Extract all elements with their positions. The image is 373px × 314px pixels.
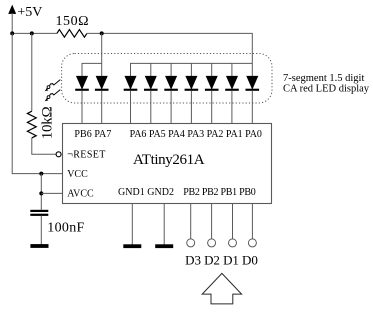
node D0 terminal <box>248 239 256 247</box>
LED1 <box>75 63 89 124</box>
wire: GND1 pin <box>131 204 133 245</box>
LED2 <box>95 63 109 124</box>
svg-text:PA6 PA5 PA4 PA3 PA2 PA1 PA0: PA6 PA5 PA4 PA3 PA2 PA1 PA0 <box>130 129 262 140</box>
svg-text:CA red LED display: CA red LED display <box>283 83 370 94</box>
light emission arrow 1 <box>45 80 61 92</box>
svg-text:PB2 PB2 PB1 PB0: PB2 PB2 PB1 PB0 <box>183 187 256 198</box>
svg-text:PB6 PA7: PB6 PA7 <box>74 129 111 140</box>
wire: feed to group-1 anode bus <box>101 33 103 63</box>
svg-text:100nF: 100nF <box>47 221 84 236</box>
LED display dashed box <box>62 54 272 104</box>
wire: rail from R1 to display feed corner <box>87 33 252 63</box>
LED6 <box>185 63 199 124</box>
junction dot at group-1 feed <box>100 31 104 35</box>
wire: PB0 pin to D0 <box>251 204 253 239</box>
+5V power symbol <box>9 5 16 33</box>
junction dot at +5V stem <box>10 31 14 35</box>
anode bus group 2 <box>131 62 253 64</box>
svg-text:GND1 GND2: GND1 GND2 <box>118 187 174 198</box>
LED7 <box>205 63 219 124</box>
junction dot at 10k branch <box>30 31 34 35</box>
svg-text:VCC: VCC <box>67 169 88 180</box>
node D1 terminal <box>229 239 237 247</box>
wire: capacitor to ground <box>40 216 42 245</box>
capacitor C1 100nF <box>30 210 48 216</box>
LED8 <box>225 63 239 123</box>
junction dot VCC branch <box>39 172 43 176</box>
nRESET inversion circle <box>56 152 61 157</box>
LED5 <box>164 63 178 124</box>
wire: AVCC pin <box>41 192 62 194</box>
wire: GND2 pin <box>163 204 165 245</box>
svg-text:+5V: +5V <box>17 5 42 20</box>
IC U1 ATtiny261A body <box>63 124 272 204</box>
LED9 <box>246 63 260 124</box>
LED3 <box>124 63 138 124</box>
resistor R1 150 ohm <box>57 30 87 38</box>
svg-text:ATtiny261A: ATtiny261A <box>133 152 205 168</box>
wire: PB2 pin to D3 <box>190 204 192 239</box>
svg-text:150Ω: 150Ω <box>56 14 89 29</box>
wire: +5V rail left segment <box>12 32 57 34</box>
LED4 <box>144 63 158 124</box>
ground under GND2 <box>155 244 173 248</box>
wire: PB2 pin to D2 <box>211 204 213 239</box>
wire: 10k to nRESET <box>32 138 56 154</box>
resistor R2 10k ohm <box>27 111 36 138</box>
light emission arrow 2 <box>45 90 61 102</box>
svg-text:¬RESET: ¬RESET <box>67 150 105 161</box>
wire: VCC to AVCC vertical <box>40 174 42 210</box>
wire: PB1 pin to D1 <box>232 204 234 239</box>
wire: left +5V drop to VCC <box>12 33 62 173</box>
anode bus group 1 <box>82 62 102 64</box>
svg-text:AVCC: AVCC <box>67 188 94 199</box>
ground under capacitor <box>30 244 48 248</box>
ground under GND1 <box>123 244 141 248</box>
node D2 terminal <box>208 239 216 247</box>
node D3 terminal <box>187 239 195 247</box>
data direction arrow <box>202 273 241 304</box>
junction dot AVCC branch <box>39 191 43 195</box>
wire: 10k branch down to resistor <box>31 33 33 111</box>
svg-text:10kΩ: 10kΩ <box>40 106 56 139</box>
svg-text:D3 D2 D1 D0: D3 D2 D1 D0 <box>185 253 258 268</box>
